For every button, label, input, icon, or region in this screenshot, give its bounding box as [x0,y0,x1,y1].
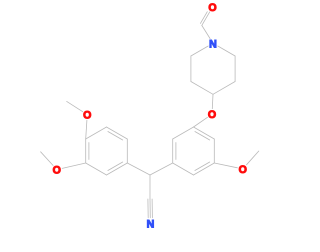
svg-text:N: N [209,38,217,50]
svg-text:N: N [147,218,155,230]
piperidine ring [191,46,235,94]
bond central CH to nitrile C [149,175,151,199]
right methoxy C-O bond [214,163,237,168]
lower-left methoxy O-CH3 bond [41,152,54,166]
svg-text:O: O [239,164,247,176]
svg-text:O: O [208,109,216,121]
formyl C=O double bond [200,12,209,26]
svg-text:O: O [208,2,216,14]
bond right ring to central CH [150,163,173,175]
formyl C-N bond [202,25,210,38]
ether bond piperidine C4-O [211,94,214,108]
svg-text:O: O [83,110,91,122]
left benzene ring [86,127,128,175]
lower-left methoxy C-O bond [62,163,85,168]
ether bond O-aryl [194,117,208,127]
right benzene ring [173,127,215,175]
nitrile triple bond [148,199,153,218]
bond left ring to central CH [127,163,150,175]
right methoxy O-CH3 bond [247,151,259,165]
upper-left methoxy O-CH3 bond [67,101,83,111]
upper-left methoxy C-O bond [86,120,87,139]
svg-text:O: O [53,165,61,177]
